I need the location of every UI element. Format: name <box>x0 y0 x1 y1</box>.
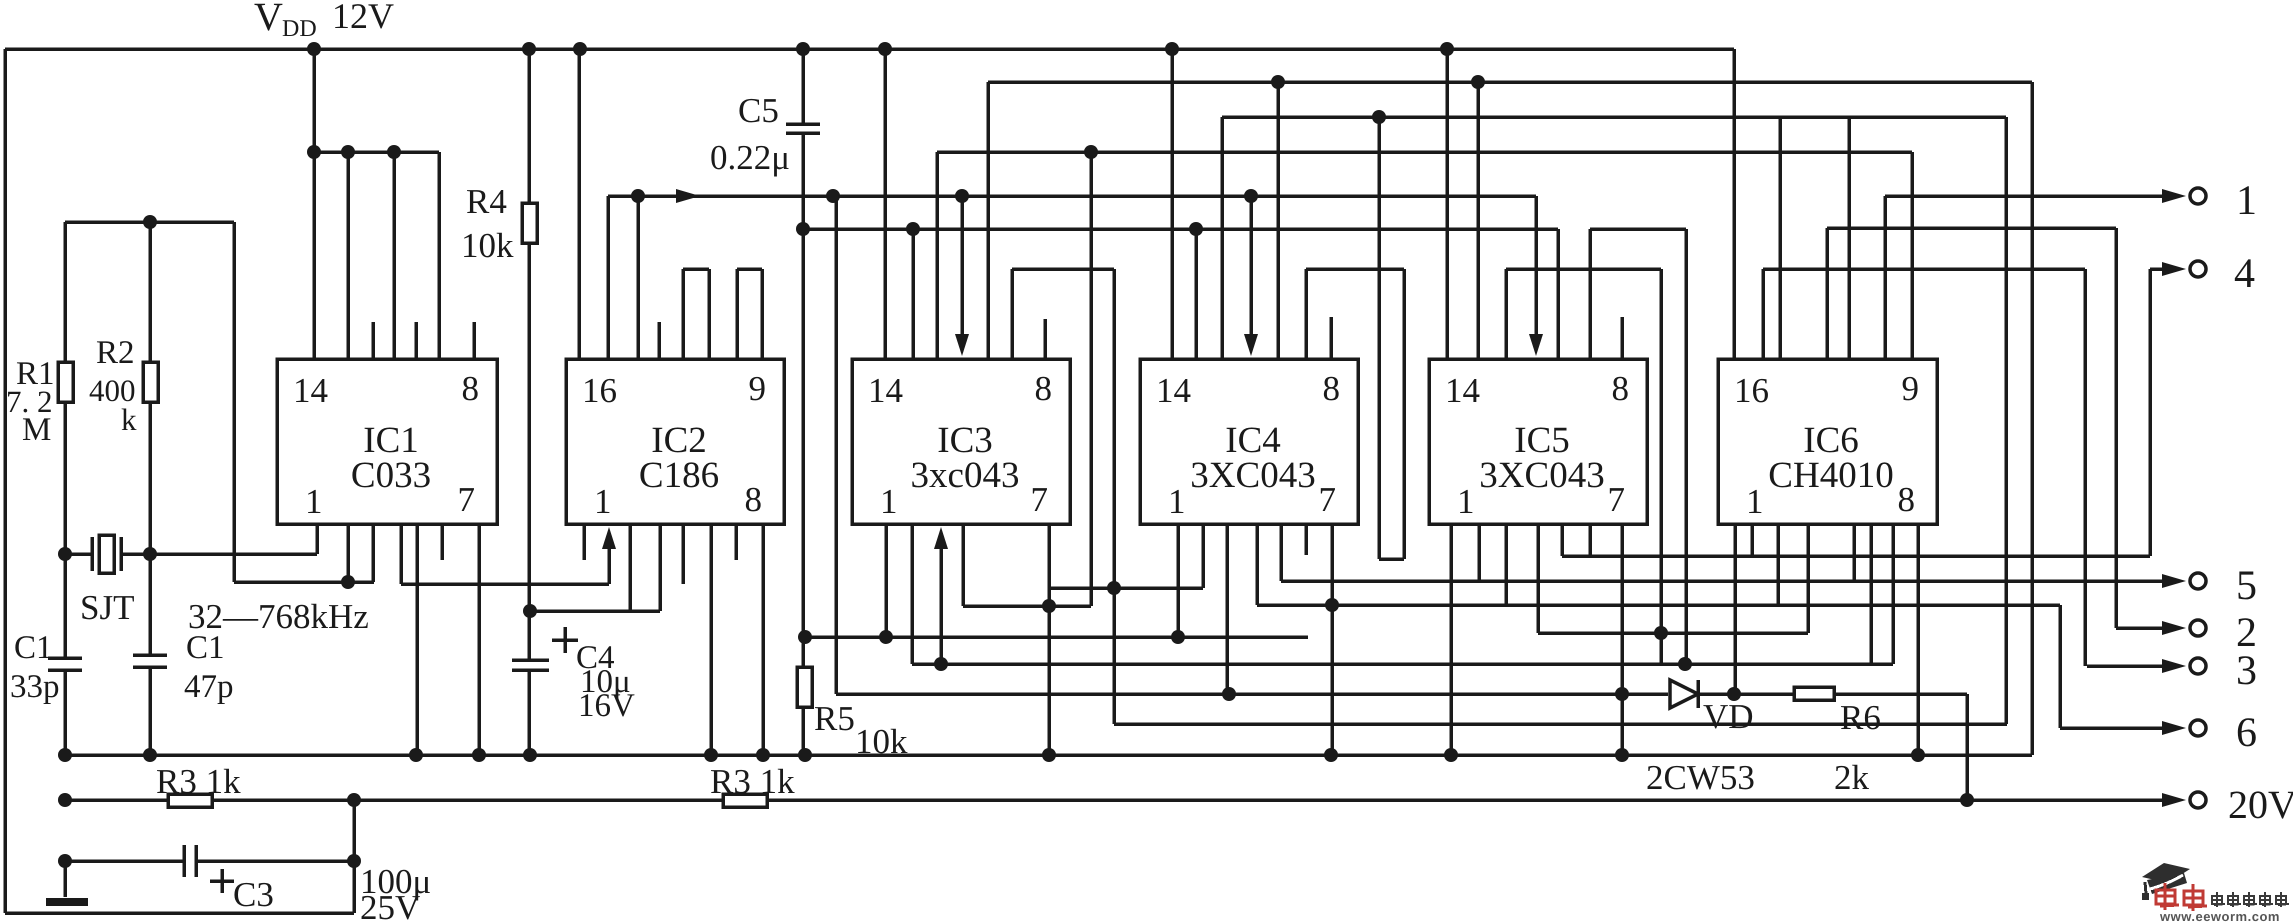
wire vertical from rail222 down <box>232 222 236 582</box>
wire C3 rail <box>65 859 184 863</box>
wire rail y633 <box>1538 631 1808 635</box>
svg-text:5: 5 <box>2236 563 2257 609</box>
svg-text:1: 1 <box>1168 482 1186 521</box>
svg-text:2CW53: 2CW53 <box>1646 758 1755 797</box>
svg-text:20V: 20V <box>2228 782 2293 827</box>
jumper U loops above IC2 <box>681 269 685 359</box>
wire IC2 pin16 to VDD <box>577 49 581 359</box>
wire rail y585 <box>1049 586 1203 590</box>
wire IC4 bottom pins <box>1176 524 1180 637</box>
jumper U above IC5 right <box>1504 269 1508 359</box>
svg-text:4: 4 <box>2234 251 2255 297</box>
wire IC5 bottom pins <box>1449 524 1453 755</box>
stub IC1 top unconnected pins <box>371 322 375 359</box>
svg-text:8: 8 <box>1612 369 1630 408</box>
svg-text:25V: 25V <box>360 888 420 923</box>
svg-text:R2: R2 <box>96 335 135 371</box>
svg-text:C1: C1 <box>14 630 53 666</box>
svg-text:R5: R5 <box>814 699 855 738</box>
svg-text:8: 8 <box>745 480 763 519</box>
watermark site name characters <box>2212 892 2225 907</box>
svg-text:2k: 2k <box>1834 758 1870 797</box>
capacitor C5 0.22u <box>801 49 805 124</box>
jumper U above IC4 right <box>1304 269 1308 359</box>
arrow into IC4 top <box>1249 196 1253 350</box>
terminal output 3 <box>2087 664 2178 668</box>
svg-text:VD: VD <box>1703 697 1754 736</box>
wire R6 to 20V rail <box>1965 694 1969 800</box>
wire IC4 pin14 to VDD <box>1170 49 1174 359</box>
svg-text:3: 3 <box>2236 648 2257 694</box>
svg-text:R6: R6 <box>1840 698 1881 737</box>
wire rail y228 to output 2 <box>1827 226 2116 230</box>
wire IC5 top pins <box>1476 82 1480 359</box>
wire rail y269 to output 3 <box>1763 267 2085 271</box>
svg-text:8: 8 <box>1323 369 1341 408</box>
wire common bus y755 <box>65 753 2032 757</box>
wire channel verticals right of IC5 <box>1659 269 1663 664</box>
svg-text:M: M <box>22 412 51 448</box>
wire IC1 pin14 to VDD <box>312 49 316 359</box>
wire IC1 pin1 from crystal <box>315 524 319 554</box>
svg-text:C033: C033 <box>351 455 431 496</box>
svg-text:1: 1 <box>1457 482 1475 521</box>
stub IC5 bottom pin <box>1588 524 1592 555</box>
resistor R4 10k <box>527 49 531 203</box>
svg-text:9: 9 <box>1902 369 1920 408</box>
terminal output 20V <box>2190 792 2206 808</box>
svg-text:14: 14 <box>868 371 903 410</box>
capacitor C4 10u 16V electrolytic <box>512 658 549 662</box>
terminal output 5 <box>2190 573 2206 589</box>
svg-text:7: 7 <box>458 480 476 519</box>
wire rail y664 <box>912 662 1893 666</box>
svg-text:14: 14 <box>1445 371 1480 410</box>
arrow into IC3 bottom <box>939 533 943 664</box>
wire rail y606 <box>963 604 1091 608</box>
svg-text:9: 9 <box>749 369 767 408</box>
svg-text:7: 7 <box>1031 480 1049 519</box>
svg-text:R4: R4 <box>466 182 507 221</box>
svg-text:8: 8 <box>1035 369 1053 408</box>
stub IC1 bottom pin <box>440 524 444 560</box>
watermark chongchong red characters <box>2156 883 2179 910</box>
wire output 6 jog <box>2058 605 2062 728</box>
wire verticals right of IC6 <box>2004 117 2008 724</box>
terminal output 2 <box>2116 626 2178 630</box>
resistor R3 1k middle <box>723 794 767 807</box>
stub IC4 top pin <box>1329 317 1333 359</box>
svg-text:7: 7 <box>1608 480 1626 519</box>
wire short rail y559 <box>1379 557 1404 561</box>
svg-text:10k: 10k <box>461 226 514 265</box>
wire IC1 bottom pins <box>346 524 350 582</box>
wire IC5 pin14 to VDD <box>1445 49 1449 359</box>
svg-text:C5: C5 <box>738 91 779 130</box>
resistor R2 400k <box>148 222 152 362</box>
wire IC6 pin16 to VDD corner <box>1732 49 1736 359</box>
stub IC3 top pin <box>1043 319 1047 359</box>
wire link rail152 to pin7 line <box>1089 152 1093 606</box>
resistor R6 2k <box>1794 687 1834 700</box>
svg-text:C3: C3 <box>233 875 274 914</box>
terminal output 1 <box>2190 188 2206 204</box>
wire crystal row <box>65 552 92 556</box>
arrow into IC2 bottom <box>607 533 611 584</box>
IC box IC1 C033 <box>277 359 497 524</box>
wire IC3 top pins <box>911 229 915 359</box>
IC box IC6 CH4010 <box>1718 359 1937 524</box>
resistor R5 10k <box>797 667 812 707</box>
wire rail y556 to output 4 <box>1562 554 2150 558</box>
svg-text:www.eeworm.com: www.eeworm.com <box>2159 909 2280 923</box>
stub IC2 bottom pin1 <box>582 524 586 560</box>
wire IC6 top pins <box>1761 269 1765 359</box>
jumper U above IC5 y229 <box>1588 229 1592 359</box>
IC box IC5 3XC043 <box>1429 359 1647 524</box>
wire rail y581 <box>401 582 609 586</box>
wire IC3 bottom pins <box>884 524 888 637</box>
svg-text:C1: C1 <box>186 630 225 666</box>
wire rail y152 long <box>937 150 1912 154</box>
arrow into IC5 top <box>1534 196 1538 350</box>
svg-text:12V: 12V <box>332 0 394 36</box>
wire signal rail y196 with arrow <box>606 196 610 359</box>
svg-text:3xc043: 3xc043 <box>911 455 1020 496</box>
ground <box>63 861 67 897</box>
svg-text:1: 1 <box>2236 178 2257 224</box>
wire IC2 bottom pins <box>628 524 632 611</box>
wire left border <box>3 49 7 913</box>
wire IC1 top pins <box>346 152 350 359</box>
resistor R3 1k left <box>65 798 168 802</box>
svg-text:V: V <box>254 0 283 39</box>
wire rail above R1 R2 <box>65 220 234 224</box>
wire rail y605 to output 6 <box>1257 603 2060 607</box>
svg-text:33p: 33p <box>10 669 60 705</box>
wire IC6 bottom pins <box>1733 524 1737 694</box>
stub IC2 bottom pin <box>734 524 738 560</box>
svg-text:14: 14 <box>293 371 328 410</box>
svg-text:DD: DD <box>282 16 317 42</box>
stub IC4 bottom pin <box>1304 524 1308 555</box>
stub IC2 top pin <box>657 322 661 359</box>
svg-text:R3 1k: R3 1k <box>156 762 241 801</box>
diode VD 2CW53 <box>1670 680 1698 708</box>
wire rail y229 <box>803 227 1558 231</box>
wire bottom border <box>5 911 354 915</box>
capacitor C3 100u 25V <box>182 845 186 877</box>
svg-text:8: 8 <box>1898 480 1916 519</box>
svg-text:1: 1 <box>594 482 612 521</box>
terminal output 6 <box>2190 720 2206 736</box>
svg-text:1: 1 <box>1746 482 1764 521</box>
wire rail below IC1 <box>234 580 374 584</box>
wire channel vertical right of IC3 <box>1112 269 1116 724</box>
IC box IC2 C186 <box>566 359 784 524</box>
wire IC3 pin14 to VDD <box>883 49 887 359</box>
IC box IC3 3xc043 <box>852 359 1070 524</box>
resistor R1 7.2M <box>63 222 67 362</box>
wire rail y117 <box>1222 115 2006 119</box>
jumper U above IC3 right <box>1010 269 1014 359</box>
crystal SJT <box>90 537 94 571</box>
wire output 1 line <box>1885 194 2178 198</box>
wire rail y611 from R4 line <box>530 609 660 613</box>
svg-text:14: 14 <box>1156 371 1191 410</box>
svg-text:3XC043: 3XC043 <box>1190 455 1315 496</box>
svg-text:7: 7 <box>1319 480 1337 519</box>
svg-text:SJT: SJT <box>80 588 134 627</box>
svg-text:3XC043: 3XC043 <box>1479 455 1604 496</box>
stub IC5 top pin <box>1620 317 1624 359</box>
watermark graduation cap logo <box>2142 863 2190 883</box>
capacitor C1 47p <box>133 653 167 657</box>
svg-text:16: 16 <box>1734 371 1769 410</box>
wire channel vertical right of IC4 <box>1402 269 1406 559</box>
wire rail y722 <box>1114 722 2007 726</box>
svg-text:47p: 47p <box>184 669 234 705</box>
svg-text:8: 8 <box>462 369 480 408</box>
wire rail above IC1 <box>314 150 439 154</box>
svg-text:6: 6 <box>2236 710 2257 756</box>
svg-text:16V: 16V <box>578 688 635 724</box>
terminal output 4 <box>2148 269 2152 556</box>
svg-text:R3 1k: R3 1k <box>710 762 795 801</box>
svg-text:k: k <box>121 402 137 437</box>
svg-text:C186: C186 <box>639 455 719 496</box>
wire rail y693 VD R6 <box>836 692 1668 696</box>
wire rail y581 to output 5 <box>1281 579 2178 583</box>
IC box IC4 3XC043 <box>1140 359 1358 524</box>
svg-text:1: 1 <box>305 482 323 521</box>
svg-text:CH4010: CH4010 <box>1768 455 1893 496</box>
svg-text:0.22μ: 0.22μ <box>710 138 790 177</box>
wire IC4 top pins <box>1194 229 1198 359</box>
VDD bus junction dots <box>307 42 321 56</box>
wire rail y82 <box>988 80 2032 84</box>
wire 20V rail <box>212 798 723 802</box>
node VDD top bus <box>5 47 1734 51</box>
svg-text:16: 16 <box>582 371 617 410</box>
arrow into IC3 top <box>960 196 964 350</box>
wire rail y635 <box>805 635 1308 639</box>
svg-text:1: 1 <box>880 482 898 521</box>
capacitor C1 33p <box>48 656 82 660</box>
wire C3 to border <box>352 800 356 913</box>
